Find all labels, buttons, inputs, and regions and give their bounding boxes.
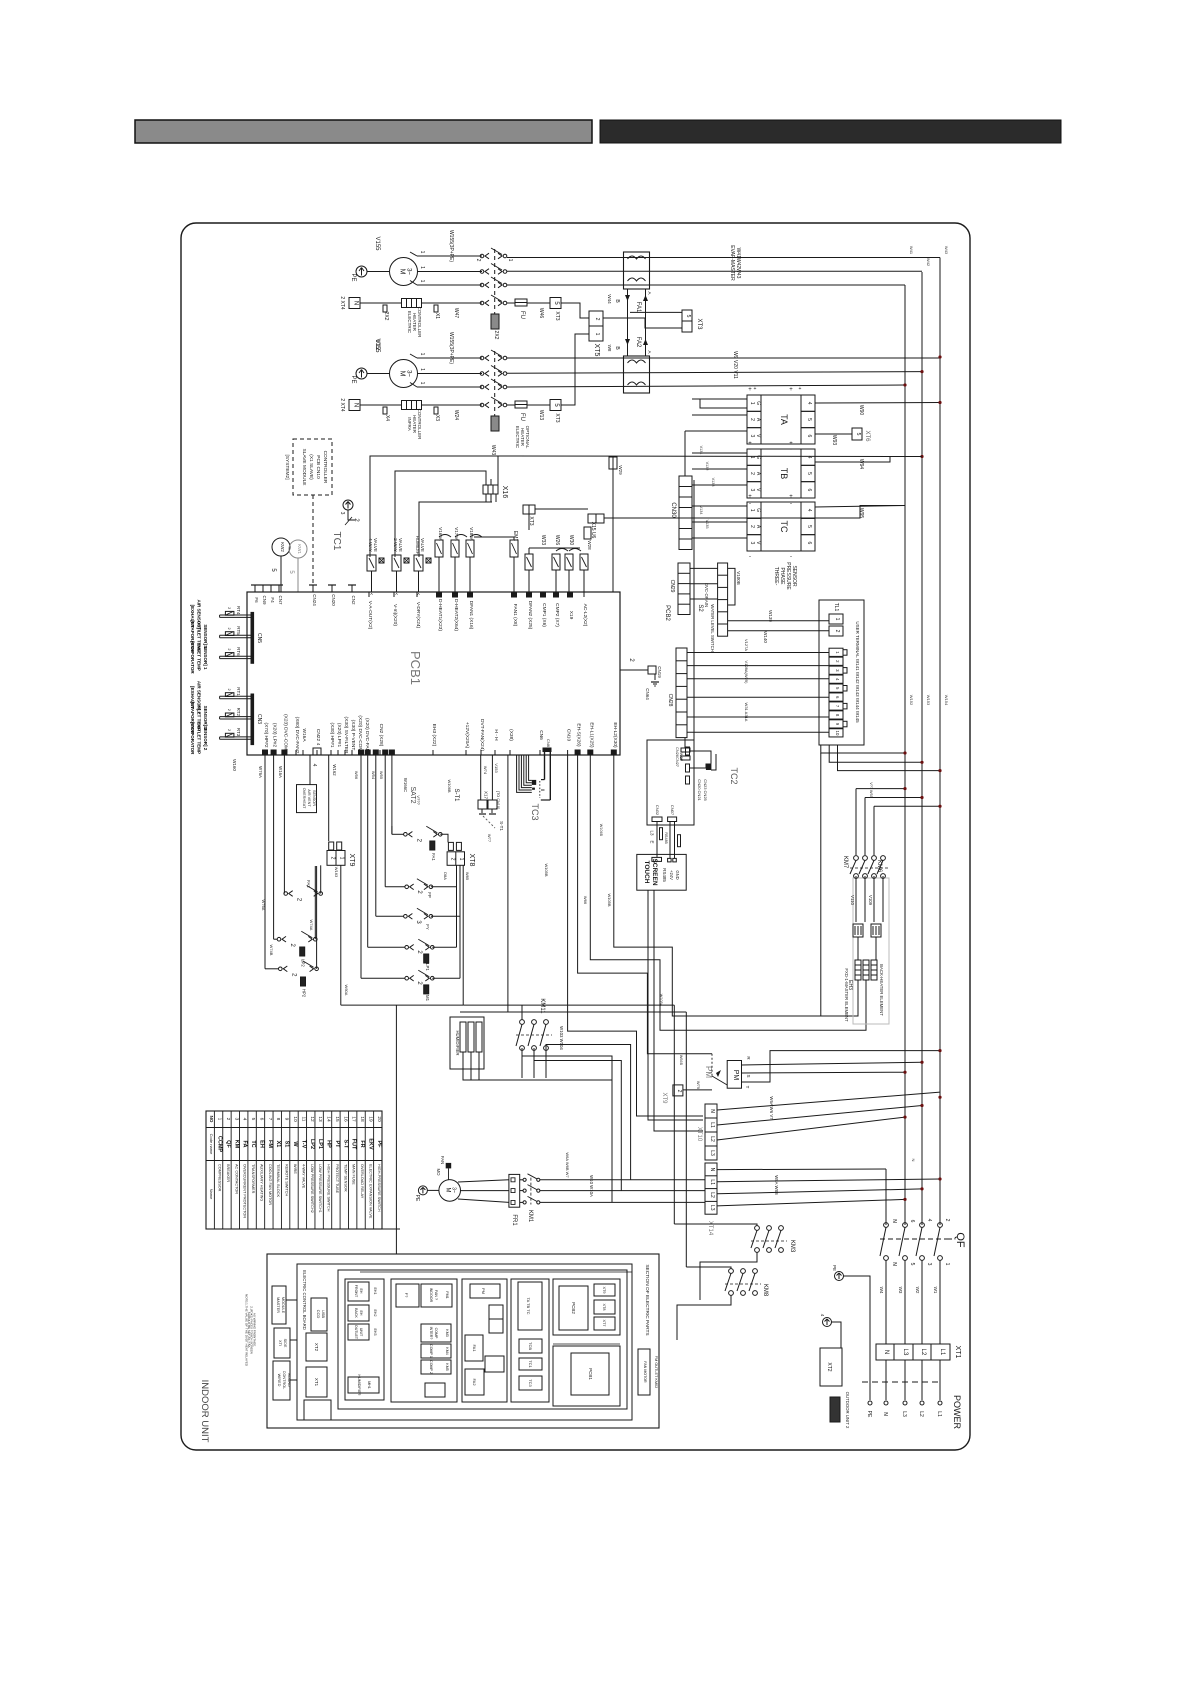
svg-text:2: 2 bbox=[227, 648, 231, 650]
svg-text:V128A(W29): V128A(W29) bbox=[744, 661, 749, 685]
svg-text:V-A-OUT(X2): V-A-OUT(X2) bbox=[367, 601, 373, 630]
svg-text:V179A: V179A bbox=[454, 527, 459, 541]
svg-text:1: 1 bbox=[217, 1118, 223, 1121]
svg-text:W94: W94 bbox=[858, 459, 864, 470]
svg-text:KM3: KM3 bbox=[789, 1240, 795, 1253]
svg-text:XT1: XT1 bbox=[954, 1346, 961, 1359]
svg-text:L1: L1 bbox=[936, 1411, 942, 1417]
svg-text:5: 5 bbox=[806, 525, 812, 528]
svg-text:FR: FR bbox=[359, 1140, 365, 1147]
svg-text:MAIN FUSE: MAIN FUSE bbox=[352, 1164, 356, 1185]
svg-text:XT9: XT9 bbox=[348, 854, 355, 867]
svg-text:CONTROLLER: CONTROLLER bbox=[417, 307, 422, 339]
svg-text:FAN: FAN bbox=[440, 1156, 445, 1164]
svg-text:Name: Name bbox=[209, 1189, 214, 1200]
svg-text:EM1: EM1 bbox=[512, 531, 518, 542]
svg-text:A: A bbox=[647, 291, 652, 294]
svg-text:F?: F? bbox=[404, 1293, 409, 1298]
svg-text:CN64: CN64 bbox=[645, 688, 650, 700]
svg-text:H - H: H - H bbox=[493, 729, 499, 741]
svg-text:E: E bbox=[649, 840, 654, 843]
svg-text:DFAN2 (X25): DFAN2 (X25) bbox=[527, 601, 533, 630]
svg-text:BACK-HEATER ELEMENT: BACK-HEATER ELEMENT bbox=[879, 964, 884, 1016]
svg-text:N: N bbox=[891, 1219, 897, 1223]
svg-text:W155(3P+PE): W155(3P+PE) bbox=[448, 332, 454, 364]
svg-text:CN20 CN21: CN20 CN21 bbox=[697, 779, 702, 801]
svg-text:DVT-FAN(X24): DVT-FAN(X24) bbox=[479, 719, 485, 751]
svg-text:PCB CN10: PCB CN10 bbox=[315, 455, 321, 479]
svg-text:3~: 3~ bbox=[406, 268, 412, 275]
svg-text:2X2: 2X2 bbox=[383, 312, 389, 321]
svg-text:W6A W6 V7: W6A W6 V7 bbox=[769, 1096, 774, 1120]
svg-text:THREE-: THREE- bbox=[773, 567, 779, 586]
svg-text:W162: W162 bbox=[332, 764, 337, 776]
svg-text:6: 6 bbox=[806, 488, 812, 491]
svg-text:USER TERMINAL W141 W142 W143: USER TERMINAL W141 W142 W143 W144 W145 bbox=[855, 621, 860, 723]
svg-text:W8A W8B: W8A W8B bbox=[774, 1175, 779, 1195]
svg-text:(X80) DVC-FAN2: (X80) DVC-FAN2 bbox=[294, 717, 300, 754]
svg-text:PE: PE bbox=[350, 375, 356, 383]
svg-text:W43: W43 bbox=[944, 246, 949, 255]
svg-text:FU: FU bbox=[519, 311, 525, 319]
svg-text:HEATER: HEATER bbox=[520, 428, 525, 447]
svg-text:20: 20 bbox=[376, 1116, 382, 1122]
svg-text:+: + bbox=[754, 386, 757, 392]
svg-text:3~: 3~ bbox=[406, 370, 412, 377]
svg-text:KM: KM bbox=[233, 1140, 239, 1149]
svg-text:5: 5 bbox=[806, 418, 812, 421]
svg-text:6: 6 bbox=[909, 1220, 915, 1223]
svg-text:W163: W163 bbox=[334, 867, 339, 878]
svg-text:10: 10 bbox=[835, 731, 840, 736]
svg-text:MH1: MH1 bbox=[367, 1381, 371, 1389]
svg-text:W153: W153 bbox=[926, 695, 931, 706]
svg-text:FM: FM bbox=[267, 1140, 273, 1148]
svg-text:N: N bbox=[911, 1159, 916, 1162]
svg-text:X1: X1 bbox=[275, 1141, 281, 1148]
svg-text:+: + bbox=[789, 387, 793, 393]
svg-text:OVERLOAD RELAY: OVERLOAD RELAY bbox=[360, 1164, 364, 1199]
svg-text:RS485: RS485 bbox=[664, 832, 668, 844]
svg-text:(X30) SV-FILTER: (X30) SV-FILTER bbox=[343, 717, 349, 754]
svg-text:OUTLET: OUTLET bbox=[354, 1325, 358, 1340]
svg-text:2: 2 bbox=[227, 607, 231, 609]
svg-text:N: N bbox=[883, 1350, 889, 1354]
svg-text:XT7: XT7 bbox=[602, 1320, 606, 1327]
svg-text:4: 4 bbox=[806, 402, 812, 405]
svg-text:N: N bbox=[709, 1168, 715, 1172]
svg-text:HUMIDIFIER: HUMIDIFIER bbox=[357, 1375, 361, 1396]
svg-text:PCB1: PCB1 bbox=[408, 651, 423, 685]
svg-text:2: 2 bbox=[676, 1090, 682, 1093]
svg-text:W103 W104: W103 W104 bbox=[559, 1026, 564, 1050]
svg-text:6: 6 bbox=[806, 434, 812, 437]
svg-text:RT6: RT6 bbox=[236, 647, 241, 656]
svg-text:QF: QF bbox=[225, 1140, 231, 1148]
svg-text:TC2: TC2 bbox=[729, 767, 739, 784]
svg-text:CN20: CN20 bbox=[331, 594, 336, 606]
svg-text:3: 3 bbox=[233, 1118, 239, 1121]
svg-text:W155(3P+PE): W155(3P+PE) bbox=[448, 230, 454, 262]
svg-text:CN5: CN5 bbox=[256, 633, 262, 643]
svg-text:HP2: HP2 bbox=[302, 989, 307, 998]
svg-text:-: - bbox=[790, 554, 792, 560]
svg-text:W44: W44 bbox=[607, 294, 612, 304]
svg-text:W1: W1 bbox=[933, 1287, 938, 1294]
svg-text:VALVE: VALVE bbox=[398, 538, 403, 552]
svg-text:4: 4 bbox=[806, 509, 812, 512]
svg-text:+: + bbox=[748, 441, 752, 447]
svg-text:KW2: KW2 bbox=[280, 542, 285, 552]
svg-text:ELECTRIC: ELECTRIC bbox=[515, 426, 520, 449]
svg-text:LOW PRESSURE SWITCH2: LOW PRESSURE SWITCH2 bbox=[310, 1164, 314, 1213]
svg-text:S: S bbox=[746, 1074, 751, 1077]
svg-text:W74: W74 bbox=[483, 766, 488, 775]
svg-text:(X30) P-VENT: (X30) P-VENT bbox=[350, 720, 356, 751]
svg-text:(X20) DVC-COMP: (X20) DVC-COMP bbox=[357, 715, 363, 754]
svg-text:W90: W90 bbox=[858, 405, 864, 416]
svg-text:L3: L3 bbox=[649, 830, 654, 836]
svg-text:S1: S1 bbox=[284, 1141, 290, 1148]
svg-text:COMP 1: COMP 1 bbox=[429, 1344, 433, 1358]
svg-text:W79: W79 bbox=[696, 1081, 701, 1090]
svg-text:AC CONTACTOR: AC CONTACTOR bbox=[234, 1164, 238, 1194]
svg-text:F4: F4 bbox=[270, 597, 275, 603]
svg-text:2: 2 bbox=[227, 709, 231, 711]
svg-text:M: M bbox=[399, 371, 406, 377]
svg-text:FAN1 (X8): FAN1 (X8) bbox=[512, 604, 518, 627]
svg-text:EH2: EH2 bbox=[373, 1310, 377, 1317]
svg-text:M1: M1 bbox=[425, 995, 430, 1002]
svg-text:2-WAY: 2-WAY bbox=[393, 538, 398, 552]
svg-text:INTER?: INTER? bbox=[429, 1327, 433, 1340]
svg-text:W13: W13 bbox=[538, 410, 544, 421]
svg-text:5: 5 bbox=[685, 315, 691, 318]
svg-text:TC3: TC3 bbox=[530, 803, 540, 820]
svg-text:KM5: KM5 bbox=[445, 1363, 449, 1370]
svg-text:N: N bbox=[353, 403, 359, 407]
svg-text:CCMP: CCMP bbox=[217, 1136, 223, 1153]
svg-text:F6: F6 bbox=[254, 597, 259, 603]
svg-text:EH-L1(X25): EH-L1(X25) bbox=[588, 722, 594, 748]
svg-text:X19: X19 bbox=[568, 611, 574, 620]
svg-text:13: 13 bbox=[317, 1116, 323, 1122]
svg-text:X16: X16 bbox=[501, 486, 508, 499]
svg-text:W30: W30 bbox=[568, 535, 574, 546]
svg-text:3: 3 bbox=[749, 434, 755, 437]
svg-text:2: 2 bbox=[227, 627, 231, 629]
svg-text:W42: W42 bbox=[926, 258, 931, 267]
svg-text:V135: V135 bbox=[705, 520, 709, 529]
svg-text:COMP 2: COMP 2 bbox=[429, 1360, 433, 1374]
svg-text:+: + bbox=[789, 494, 793, 500]
svg-text:EKV: EKV bbox=[367, 1138, 373, 1150]
svg-text:XT5: XT5 bbox=[593, 344, 600, 357]
svg-text:INDOOR: INDOOR bbox=[429, 1288, 433, 1303]
svg-text:2: 2 bbox=[594, 318, 600, 321]
svg-text:W46: W46 bbox=[538, 308, 544, 319]
svg-text:W43: W43 bbox=[490, 445, 496, 456]
svg-text:1: 1 bbox=[419, 368, 425, 371]
svg-text:EH-S(X26): EH-S(X26) bbox=[576, 723, 582, 747]
svg-text:POWER: POWER bbox=[952, 1395, 962, 1430]
svg-text:W85: W85 bbox=[465, 872, 470, 881]
svg-text:MASTER: MASTER bbox=[276, 1297, 280, 1313]
svg-text:KM1: KM1 bbox=[527, 1210, 533, 1223]
svg-text:TRANSFORMER: TRANSFORMER bbox=[251, 1164, 255, 1194]
svg-text:SENSOR] 2: SENSOR] 2 bbox=[203, 726, 208, 751]
svg-text:V-m)(X20): V-m)(X20) bbox=[392, 604, 398, 626]
svg-text:1: 1 bbox=[749, 402, 755, 405]
svg-text:CN3: CN3 bbox=[256, 714, 262, 724]
svg-text:V-DRY(X24): V-DRY(X24) bbox=[415, 602, 421, 629]
svg-text:+12V(X20A): +12V(X20A) bbox=[464, 722, 470, 749]
svg-text:W105B: W105B bbox=[544, 863, 549, 876]
svg-text:D-HEAT1(X23): D-HEAT1(X23) bbox=[437, 599, 443, 631]
svg-text:L3: L3 bbox=[902, 1349, 908, 1356]
svg-text:15: 15 bbox=[334, 1116, 340, 1122]
svg-text:LOW PRESSURE SWITCH1: LOW PRESSURE SWITCH1 bbox=[318, 1164, 322, 1213]
svg-text:PT: PT bbox=[334, 1140, 340, 1148]
svg-text:FRONT: FRONT bbox=[354, 1285, 358, 1298]
svg-text:V169A: V169A bbox=[438, 527, 443, 541]
svg-text:SCREEN: SCREEN bbox=[651, 858, 658, 885]
svg-text:CN2: CN2 bbox=[351, 595, 356, 604]
svg-text:W66: W66 bbox=[583, 896, 588, 905]
svg-text:V127A: V127A bbox=[744, 639, 749, 651]
svg-text:3: 3 bbox=[749, 488, 755, 491]
svg-text:PE: PE bbox=[832, 1265, 837, 1271]
svg-text:2: 2 bbox=[475, 259, 481, 262]
svg-text:10: 10 bbox=[292, 1116, 298, 1122]
svg-text:+: + bbox=[748, 494, 752, 500]
svg-text:12: 12 bbox=[309, 1116, 315, 1122]
svg-text:PM: PM bbox=[481, 1288, 486, 1294]
svg-text:KW1: KW1 bbox=[297, 544, 302, 554]
svg-text:1: 1 bbox=[419, 251, 425, 254]
svg-text:1: 1 bbox=[339, 857, 345, 860]
svg-text:ELECTRIC: ELECTRIC bbox=[407, 311, 412, 334]
svg-text:CONTROL: CONTROL bbox=[282, 1371, 286, 1390]
svg-text:D8A: D8A bbox=[443, 872, 448, 880]
svg-text:XT10: XT10 bbox=[696, 1127, 702, 1142]
svg-text:2: 2 bbox=[227, 729, 231, 731]
svg-text:V134: V134 bbox=[699, 506, 703, 515]
svg-text:PRESSURE: PRESSURE bbox=[785, 562, 791, 590]
svg-text:1: 1 bbox=[419, 382, 425, 385]
svg-text:W33: W33 bbox=[540, 535, 546, 546]
svg-text:W41: W41 bbox=[909, 246, 914, 255]
svg-text:EVAP-MASTER: EVAP-MASTER bbox=[729, 245, 735, 281]
svg-text:CCD: CCD bbox=[316, 1310, 321, 1319]
svg-text:N: N bbox=[891, 1262, 897, 1266]
svg-text:W16A: W16A bbox=[278, 766, 283, 778]
svg-text:(X20) LP#1: (X20) LP#1 bbox=[336, 723, 342, 748]
svg-text:TC1: TC1 bbox=[331, 532, 342, 551]
svg-text:FXD-1-MASTER ELEMENT: FXD-1-MASTER ELEMENT bbox=[844, 968, 849, 1022]
svg-text:W16A: W16A bbox=[301, 728, 307, 742]
svg-text:[SYSTEM2]: [SYSTEM2] bbox=[284, 454, 290, 479]
svg-text:TA: TA bbox=[779, 414, 789, 425]
svg-text:V12: V12 bbox=[374, 340, 380, 351]
svg-text:S-T: S-T bbox=[342, 1140, 348, 1150]
svg-text:X3: X3 bbox=[434, 415, 440, 421]
svg-text:W105A: W105A bbox=[659, 994, 663, 1007]
svg-text:(X1 SLAVE): (X1 SLAVE) bbox=[308, 454, 314, 480]
svg-text:EH3: EH3 bbox=[373, 1329, 377, 1336]
svg-text:[TO CN10]: [TO CN10] bbox=[496, 791, 500, 809]
svg-text:CN27: CN27 bbox=[675, 757, 679, 767]
svg-text:W24: W24 bbox=[453, 410, 459, 421]
svg-text:QF: QF bbox=[954, 1232, 966, 1248]
svg-text:Code name: Code name bbox=[209, 1134, 214, 1155]
svg-text:2: 2 bbox=[834, 630, 840, 633]
svg-text:OVERCURRENT PROTECTOR: OVERCURRENT PROTECTOR bbox=[243, 1164, 247, 1218]
svg-text:W106B: W106B bbox=[447, 779, 452, 792]
svg-text:5: 5 bbox=[855, 433, 861, 436]
svg-text:1: 1 bbox=[749, 509, 755, 512]
svg-text:LP1: LP1 bbox=[317, 1139, 323, 1149]
svg-text:W3: W3 bbox=[898, 1287, 903, 1294]
svg-text:V131: V131 bbox=[699, 446, 703, 455]
svg-text:OVERHEAT: OVERHEAT bbox=[302, 788, 306, 809]
svg-text:L3: L3 bbox=[709, 1205, 715, 1211]
svg-text:FM1: FM1 bbox=[445, 1291, 449, 1298]
svg-text:TOUCH: TOUCH bbox=[643, 861, 650, 884]
svg-text:L1: L1 bbox=[709, 1122, 715, 1128]
svg-text:TC: TC bbox=[250, 1140, 256, 1147]
svg-text:W154: W154 bbox=[944, 695, 949, 706]
svg-text:2: 2 bbox=[749, 472, 755, 475]
svg-text:CN7: CN7 bbox=[278, 595, 283, 604]
svg-text:11: 11 bbox=[300, 1117, 306, 1122]
svg-text:W29: W29 bbox=[618, 465, 623, 475]
svg-text:COOLING FAN MOTOR: COOLING FAN MOTOR bbox=[268, 1164, 272, 1205]
svg-text:W55: W55 bbox=[379, 771, 384, 780]
svg-text:5: 5 bbox=[250, 1118, 256, 1121]
svg-text:AC-L2(X2): AC-L2(X2) bbox=[582, 604, 588, 627]
svg-text:W2: W2 bbox=[915, 1287, 920, 1294]
svg-text:V132: V132 bbox=[705, 462, 709, 471]
svg-text:L2: L2 bbox=[709, 1192, 715, 1198]
svg-text:CONTROLLER: CONTROLLER bbox=[322, 451, 328, 484]
svg-text:L1: L1 bbox=[939, 1349, 945, 1356]
svg-text:(X20) DVC-FAN: (X20) DVC-FAN bbox=[364, 718, 370, 753]
svg-text:XT3: XT3 bbox=[554, 413, 560, 422]
svg-text:CN07: CN07 bbox=[670, 805, 675, 816]
svg-text:N: N bbox=[882, 1412, 888, 1416]
svg-text:+: + bbox=[799, 386, 802, 392]
svg-text:M: M bbox=[399, 269, 406, 275]
svg-text:W60A: W60A bbox=[344, 985, 349, 996]
svg-text:(X38): (X38) bbox=[508, 729, 514, 741]
svg-text:FA1: FA1 bbox=[431, 853, 436, 861]
svg-text:CN22: CN22 bbox=[315, 729, 321, 742]
svg-text:D-HEAT2(X64): D-HEAT2(X64) bbox=[453, 599, 459, 631]
svg-text:5: 5 bbox=[909, 1263, 915, 1266]
svg-text:FA: FA bbox=[242, 1140, 248, 1147]
svg-text:S-T1: S-T1 bbox=[499, 821, 504, 831]
svg-text:LP2: LP2 bbox=[301, 959, 306, 967]
svg-text:RS485: RS485 bbox=[662, 868, 667, 882]
svg-text:RT5: RT5 bbox=[236, 626, 241, 635]
svg-text:8: 8 bbox=[275, 1118, 281, 1121]
svg-text:W26: W26 bbox=[554, 535, 560, 546]
svg-text:CMP1 (X6): CMP1 (X6) bbox=[541, 603, 547, 627]
svg-text:DFAN1 (X16): DFAN1 (X16) bbox=[468, 601, 474, 630]
svg-text:19: 19 bbox=[367, 1116, 373, 1122]
svg-text:-: - bbox=[749, 447, 751, 453]
svg-text:W95: W95 bbox=[858, 508, 864, 519]
svg-text:L3: L3 bbox=[901, 1411, 907, 1417]
svg-text:2: 2 bbox=[225, 1118, 231, 1121]
svg-text:CN19: CN19 bbox=[657, 666, 662, 678]
svg-text:HUMIDIF: HUMIDIF bbox=[415, 536, 420, 555]
svg-text:(X70) HP#2: (X70) HP#2 bbox=[263, 722, 269, 747]
svg-text:OUTLET TEMP: OUTLET TEMP bbox=[197, 722, 202, 754]
svg-text:1: 1 bbox=[834, 618, 840, 621]
svg-text:4-WAY VALVE: 4-WAY VALVE bbox=[301, 1164, 305, 1189]
svg-text:ELECTRIC CONTROL BOARD: ELECTRIC CONTROL BOARD bbox=[302, 1270, 307, 1330]
svg-text:HIGH-PRESSURE SWITCH: HIGH-PRESSURE SWITCH bbox=[377, 1164, 381, 1212]
svg-text:LP1: LP1 bbox=[425, 963, 430, 971]
svg-text:FA2: FA2 bbox=[306, 880, 311, 888]
svg-text:4: 4 bbox=[242, 1118, 248, 1121]
svg-text:9: 9 bbox=[284, 1118, 290, 1121]
svg-text:3: 3 bbox=[339, 512, 345, 515]
svg-text:5: 5 bbox=[806, 472, 812, 475]
svg-text:CN2 (X28): CN2 (X28) bbox=[378, 724, 384, 747]
svg-text:FR1: FR1 bbox=[511, 1214, 517, 1226]
svg-text:L2: L2 bbox=[709, 1136, 715, 1142]
svg-text:INDOOR UNIT: INDOOR UNIT bbox=[199, 1380, 210, 1443]
svg-text:FAN ?: FAN ? bbox=[434, 1290, 438, 1300]
svg-text:HEATER: HEATER bbox=[412, 313, 417, 332]
svg-text:SECTION OF ELECTRIC PARTS: SECTION OF ELECTRIC PARTS bbox=[644, 1264, 650, 1335]
svg-text:FUT: FUT bbox=[351, 1139, 357, 1150]
svg-text:+24V: +24V bbox=[669, 870, 674, 880]
svg-text:XT6: XT6 bbox=[864, 430, 870, 442]
svg-text:X4: X4 bbox=[384, 415, 390, 421]
svg-text:TB: TB bbox=[779, 468, 789, 480]
svg-text:WIRE: WIRE bbox=[293, 1164, 297, 1174]
svg-text:(X30) HP#1: (X30) HP#1 bbox=[329, 722, 335, 747]
svg-text:16: 16 bbox=[342, 1116, 348, 1122]
svg-text:T: T bbox=[745, 1086, 750, 1089]
svg-text:W74A: W74A bbox=[309, 920, 314, 931]
svg-text:CN6: CN6 bbox=[546, 739, 551, 748]
svg-text:N: N bbox=[353, 301, 359, 305]
svg-text:V100B: V100B bbox=[736, 571, 741, 585]
svg-text:FA1: FA1 bbox=[472, 1344, 477, 1352]
svg-text:PE: PE bbox=[350, 273, 356, 281]
svg-text:TEMP SENSOR: TEMP SENSOR bbox=[343, 1164, 347, 1192]
svg-text:PM: PM bbox=[732, 1070, 739, 1081]
svg-text:7: 7 bbox=[267, 1118, 273, 1121]
svg-text:[EVAPORATOR: [EVAPORATOR bbox=[190, 641, 195, 674]
svg-text:W140: W140 bbox=[763, 631, 768, 643]
svg-text:6: 6 bbox=[806, 541, 812, 544]
svg-text:4: 4 bbox=[926, 1219, 932, 1222]
svg-text:2: 2 bbox=[330, 857, 336, 860]
svg-text:W76A: W76A bbox=[258, 766, 263, 778]
svg-text:EH: EH bbox=[359, 1289, 363, 1294]
svg-text:CN26: CN26 bbox=[675, 747, 679, 757]
svg-text:RT4: RT4 bbox=[236, 606, 241, 615]
svg-text:FA2: FA2 bbox=[472, 1378, 477, 1386]
svg-text:KM6: KM6 bbox=[876, 860, 882, 873]
svg-text:BACK: BACK bbox=[354, 1308, 358, 1318]
